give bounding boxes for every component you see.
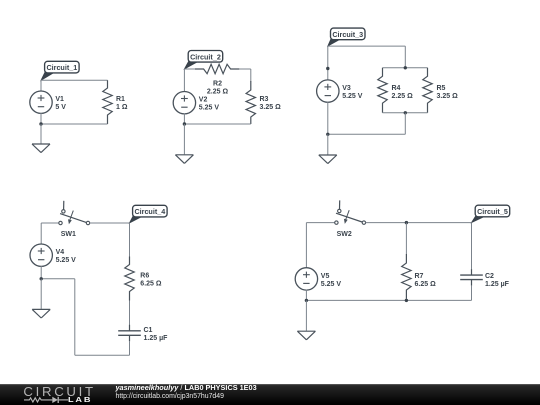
wire R6 top run	[129, 223, 131, 257]
logo resistor-diode symbol	[24, 397, 68, 403]
label R2 value	[207, 80, 229, 95]
resistor R2	[195, 64, 239, 73]
node junction (parallel top)	[404, 66, 407, 69]
svg-text:6.25 Ω: 6.25 Ω	[415, 281, 437, 288]
label Circuit_3	[328, 28, 365, 46]
svg-text:Circuit_2: Circuit_2	[190, 52, 221, 61]
wire parallel bottom bar	[383, 112, 428, 114]
svg-text:V3: V3	[342, 85, 351, 92]
voltage source V3	[317, 80, 339, 102]
wire C2 bottom stub	[471, 286, 473, 301]
node junction (R7 top)	[405, 221, 408, 224]
wire V3 bottom stub	[327, 102, 329, 135]
label R6 value	[140, 272, 162, 287]
svg-text:R6: R6	[140, 272, 149, 279]
wire switch to node (circuit 5)	[366, 222, 472, 224]
svg-text:1 Ω: 1 Ω	[116, 104, 128, 111]
svg-text:R3: R3	[260, 96, 269, 103]
voltage source V5	[295, 268, 317, 290]
svg-text:6.25 Ω: 6.25 Ω	[140, 280, 162, 287]
wire right down to parallel top	[404, 46, 406, 68]
label R4 value	[392, 85, 414, 100]
svg-text:Circuit_3: Circuit_3	[332, 30, 363, 39]
svg-text:Circuit_1: Circuit_1	[46, 63, 77, 72]
wire R6 to C1	[129, 301, 131, 326]
wire R7 bottom stub	[405, 299, 407, 301]
svg-text:5 V: 5 V	[55, 104, 66, 111]
CircuitLab logo	[23, 384, 103, 405]
label Circuit_2	[184, 51, 222, 70]
ground (circuit 5)	[297, 300, 315, 339]
svg-text:SW2: SW2	[337, 231, 352, 238]
svg-text:R2: R2	[213, 80, 222, 87]
ground (circuit 1)	[32, 124, 50, 153]
svg-text:5.25 V: 5.25 V	[342, 93, 363, 100]
label C2 value	[485, 273, 510, 288]
capacitor C2	[460, 269, 483, 286]
label C1 value	[144, 327, 169, 342]
wire left top stub V1 (circuit 1)	[40, 80, 42, 91]
wire top (circuit 3)	[328, 45, 406, 47]
node junction (circuit 4 bottom)	[40, 277, 43, 280]
label V3 value	[342, 85, 363, 100]
svg-text:2.25 Ω: 2.25 Ω	[392, 93, 414, 100]
wire V1 bottom stub	[40, 113, 42, 124]
resistor R7	[402, 254, 411, 299]
wire bottom (circuit 2)	[184, 123, 250, 125]
capacitor C1	[118, 325, 141, 342]
wire V4 bottom to riser	[41, 278, 75, 280]
svg-text:2.25 Ω: 2.25 Ω	[207, 88, 229, 95]
wire left stub V2 top	[183, 69, 185, 92]
svg-text:R4: R4	[392, 85, 401, 92]
wire top right (circuit 2)	[239, 68, 251, 70]
wire V2 bottom stub	[183, 114, 185, 125]
svg-text:5.25 V: 5.25 V	[199, 105, 220, 112]
label Circuit_5	[472, 205, 510, 222]
voltage source V2	[173, 92, 195, 114]
wire V4 to switch	[41, 222, 59, 224]
svg-text:Circuit_4: Circuit_4	[134, 207, 165, 216]
wire top left stub (circuit 2)	[184, 68, 195, 70]
svg-text:3.25 Ω: 3.25 Ω	[437, 93, 459, 100]
label R5 value	[437, 85, 459, 100]
wire right stub R3 top	[250, 69, 252, 82]
wire bottom (circuit 5)	[306, 299, 471, 301]
node junction (circuit 5 bottom mid)	[405, 299, 408, 302]
switch SW2	[335, 200, 366, 238]
label R3 value	[260, 96, 282, 111]
resistor R1	[103, 80, 112, 124]
wire bottom (circuit 1)	[41, 123, 108, 125]
label Circuit_1	[41, 61, 79, 80]
wire V4 bottom stub	[40, 266, 42, 279]
wire left stub (circuit 3)	[327, 46, 329, 80]
ground (circuit 4)	[32, 279, 50, 318]
svg-text:R5: R5	[437, 85, 446, 92]
label R7 value	[415, 273, 437, 288]
node junction (circuit 3 bottom)	[326, 133, 329, 136]
svg-text:SW1: SW1	[61, 231, 76, 238]
voltage source V4	[30, 244, 52, 266]
resistor R5	[423, 68, 432, 113]
wire C2 top run	[471, 223, 473, 270]
svg-text:V2: V2	[199, 97, 208, 104]
wire parallel top bar	[383, 67, 428, 69]
node junction (circuit 5 bottom left)	[305, 299, 308, 302]
svg-text:1.25 µF: 1.25 µF	[144, 335, 169, 342]
wire top (circuit 1)	[41, 79, 108, 81]
svg-text:3.25 Ω: 3.25 Ω	[260, 104, 282, 111]
wire bottom left riser (circuit 4)	[74, 279, 76, 355]
label V1 value	[55, 96, 66, 111]
switch SW1	[59, 201, 90, 238]
label Circuit_4	[130, 205, 168, 223]
wire switch to node (circuit 4)	[90, 222, 130, 224]
wire R7 top run	[405, 223, 407, 255]
svg-text:V5: V5	[321, 273, 330, 280]
label V5 value	[321, 273, 342, 288]
svg-text:Circuit_5: Circuit_5	[477, 207, 508, 216]
node junction (circuit 2 bottom)	[183, 122, 186, 125]
label R1 value	[116, 96, 128, 111]
wire V5 top stub	[305, 223, 307, 269]
svg-text:5.25 V: 5.25 V	[56, 257, 77, 264]
svg-text:V1: V1	[55, 96, 64, 103]
svg-text:5.25 V: 5.25 V	[321, 281, 342, 288]
label V4 value	[56, 249, 77, 264]
wire bottom (circuit 4)	[75, 354, 130, 356]
wire V5 bottom stub	[305, 290, 307, 301]
svg-text:R7: R7	[415, 273, 424, 280]
svg-text:C2: C2	[485, 273, 494, 280]
node junction (parallel bottom)	[404, 111, 407, 114]
wire C1 bottom stub	[129, 341, 131, 355]
node junction (circuit 3 left)	[326, 67, 329, 70]
resistor R4	[378, 68, 387, 113]
ground (circuit 2)	[175, 124, 193, 163]
ground (circuit 3)	[319, 134, 337, 163]
resistor R6	[125, 257, 134, 301]
svg-text:V4: V4	[56, 249, 65, 256]
svg-text:1.25 µF: 1.25 µF	[485, 281, 510, 288]
voltage source V1	[30, 91, 52, 113]
resistor R3	[246, 81, 255, 124]
wire parallel bottom down	[404, 113, 406, 135]
wire V4 top stub	[40, 223, 42, 244]
node junction (circuit 1 bottom)	[39, 122, 42, 125]
wire bottom (circuit 3)	[328, 133, 406, 135]
label V2 value	[199, 97, 220, 112]
svg-text:C1: C1	[144, 327, 153, 334]
wire V5 to switch	[306, 222, 334, 224]
svg-text:R1: R1	[116, 96, 125, 103]
